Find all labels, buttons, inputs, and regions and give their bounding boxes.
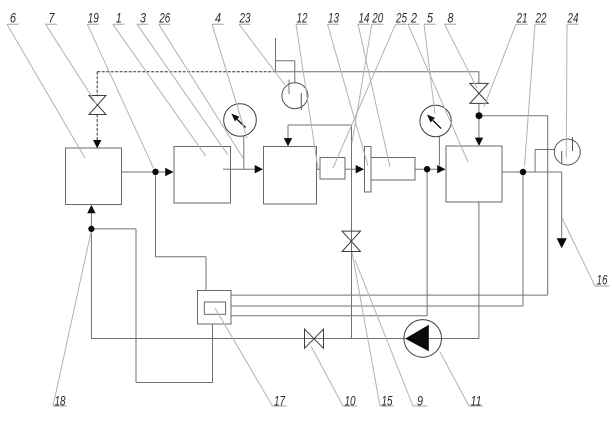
svg-text:10: 10 [345,393,356,409]
svg-text:7: 7 [49,10,56,26]
svg-text:3: 3 [140,10,146,26]
svg-text:1: 1 [116,10,122,26]
svg-text:6: 6 [10,10,16,26]
svg-text:8: 8 [448,10,454,26]
svg-text:2: 2 [410,10,417,26]
svg-text:11: 11 [471,393,482,409]
svg-text:26: 26 [158,10,170,26]
svg-text:14: 14 [359,10,370,26]
svg-text:18: 18 [55,393,66,409]
svg-text:9: 9 [417,393,423,409]
svg-text:19: 19 [88,10,99,26]
svg-text:25: 25 [395,10,407,26]
svg-text:16: 16 [597,272,608,288]
svg-text:12: 12 [297,10,308,26]
svg-text:4: 4 [215,10,221,26]
svg-text:20: 20 [372,10,384,26]
svg-text:24: 24 [567,10,579,26]
svg-text:5: 5 [427,10,433,26]
svg-text:21: 21 [516,10,528,26]
svg-text:15: 15 [382,393,393,409]
svg-text:13: 13 [328,10,339,26]
svg-text:23: 23 [239,10,251,26]
svg-text:22: 22 [535,10,547,26]
svg-text:17: 17 [274,393,286,409]
